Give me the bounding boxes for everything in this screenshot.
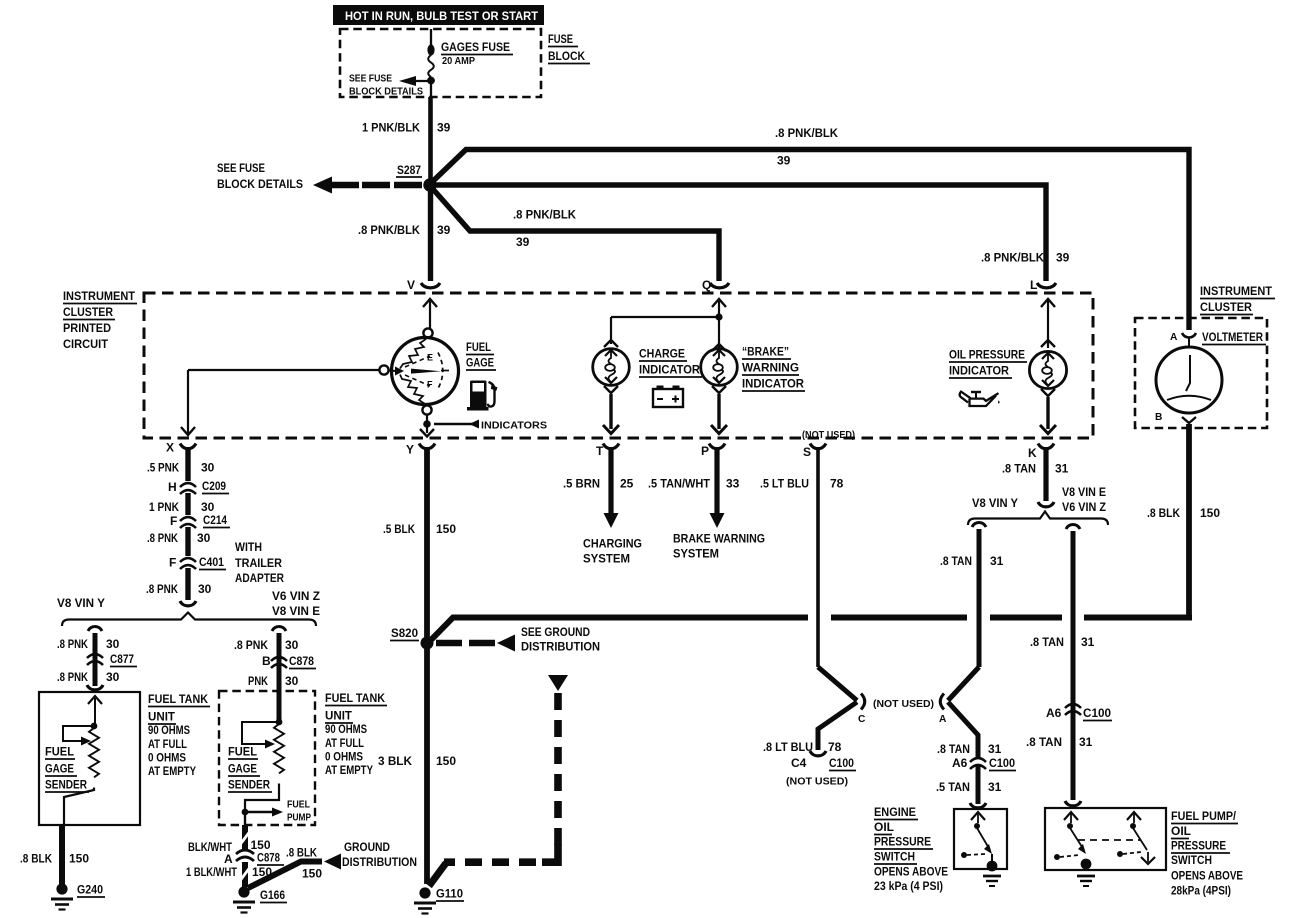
svg-text:30: 30 — [201, 500, 215, 514]
instrument cluster printed circuit dashed box — [144, 293, 1093, 438]
svg-text:GAGE: GAGE — [228, 762, 257, 776]
svg-text:H: H — [168, 480, 177, 494]
wire .5 TAN 31 into engine oil pressure switch — [936, 766, 1002, 808]
svg-text:A: A — [939, 714, 947, 725]
svg-text:F: F — [170, 514, 177, 528]
label WITH TRAILER ADAPTER — [235, 540, 284, 585]
svg-text:20 AMP: 20 AMP — [442, 56, 475, 67]
svg-text:V8 VIN Y: V8 VIN Y — [57, 596, 105, 610]
svg-text:S820: S820 — [391, 626, 418, 640]
svg-text:GROUND: GROUND — [344, 840, 390, 854]
svg-text:ADAPTER: ADAPTER — [235, 571, 284, 585]
svg-text:39: 39 — [437, 121, 451, 135]
connector P (cluster bottom) — [701, 444, 725, 459]
svg-text:BLOCK DETAILS: BLOCK DETAILS — [349, 87, 423, 98]
svg-text:.8 TAN: .8 TAN — [1030, 635, 1064, 649]
svg-text:FUSE: FUSE — [548, 32, 573, 46]
svg-text:.5 BLK: .5 BLK — [383, 522, 415, 536]
wire dashed arrow SEE GROUND DISTRIBUTION — [436, 625, 600, 654]
wire P .5 TAN/WHT 33 to brake warning system — [648, 447, 765, 561]
svg-text:30: 30 — [285, 638, 299, 652]
svg-text:INSTRUMENT: INSTRUMENT — [63, 289, 136, 303]
svg-text:.8 BLK: .8 BLK — [1147, 506, 1180, 520]
wire .8 PNK/BLK 39 S287 to Q (lower run) — [432, 188, 719, 281]
connector C209 pin H — [168, 479, 229, 494]
svg-text:78: 78 — [828, 740, 842, 754]
svg-text:3 BLK: 3 BLK — [378, 754, 412, 768]
svg-text:FUEL: FUEL — [466, 340, 491, 354]
label FUEL GAGE SENDER (left) — [45, 745, 89, 793]
svg-text:C: C — [858, 714, 866, 725]
svg-text:SENDER: SENDER — [228, 778, 270, 792]
svg-text:1 PNK/BLK: 1 PNK/BLK — [362, 121, 420, 135]
wire arrow FUEL PUMP — [245, 800, 311, 824]
svg-text:C100: C100 — [829, 756, 854, 770]
svg-text:E: E — [427, 353, 433, 363]
svg-text:78: 78 — [830, 477, 844, 491]
svg-text:G110: G110 — [436, 887, 463, 901]
svg-text:A: A — [224, 852, 233, 866]
svg-text:SWITCH: SWITCH — [1171, 853, 1212, 867]
svg-text:.8 PNK: .8 PNK — [146, 582, 178, 596]
wire 1 PNK/BLK 39 fuse to S287 — [362, 84, 451, 184]
connector C100 A6 (left branch) — [952, 756, 1016, 771]
svg-text:31: 31 — [988, 742, 1002, 756]
svg-text:33: 33 — [726, 477, 740, 491]
connector X (cluster bottom) — [166, 441, 196, 455]
svg-text:AT EMPTY: AT EMPTY — [325, 763, 373, 777]
svg-text:OPENS ABOVE: OPENS ABOVE — [874, 865, 948, 879]
svg-text:30: 30 — [201, 461, 215, 475]
svg-text:PRESSURE: PRESSURE — [874, 835, 931, 849]
wire .8 BLK 150 to ground distribution — [248, 846, 341, 889]
svg-text:CIRCUIT: CIRCUIT — [63, 337, 109, 351]
wire .8 BLK 150 to G240 — [20, 825, 89, 884]
label FUSE BLOCK — [548, 32, 590, 64]
wire arrow INDICATORS — [434, 420, 547, 432]
connector C100 A6 (right branch) — [1026, 704, 1112, 749]
svg-text:HOT IN RUN, BULB TEST OR START: HOT IN RUN, BULB TEST OR START — [345, 9, 539, 23]
svg-text:25: 25 — [620, 477, 634, 491]
switch SW2 fuel pump (left element) — [1054, 812, 1086, 860]
svg-text:.8 TAN: .8 TAN — [1026, 735, 1062, 749]
label INSTRUMENT CLUSTER PRINTED CIRCUIT — [63, 289, 137, 351]
svg-text:OPENS ABOVE: OPENS ABOVE — [1171, 869, 1243, 883]
svg-text:OIL: OIL — [1171, 824, 1191, 838]
svg-text:ENGINE: ENGINE — [874, 805, 916, 819]
svg-text:.8 PNK: .8 PNK — [57, 637, 88, 651]
svg-text:1 BLK/WHT: 1 BLK/WHT — [186, 865, 238, 879]
svg-text:.5 TAN: .5 TAN — [936, 780, 970, 794]
svg-text:GAGE: GAGE — [45, 762, 74, 776]
wire 1 BLK/WHT 150 to G166 — [186, 862, 272, 887]
connector L (cluster top) — [1030, 278, 1056, 348]
svg-text:.8 PNK/BLK: .8 PNK/BLK — [775, 126, 838, 140]
splice S820 — [390, 626, 434, 650]
svg-text:C878: C878 — [257, 851, 280, 865]
fuel pump / oil pressure switch box — [1045, 808, 1166, 870]
svg-text:SEE FUSE: SEE FUSE — [217, 161, 265, 175]
connector Y (cluster bottom) — [406, 443, 435, 457]
svg-text:C877: C877 — [110, 652, 134, 666]
wire .8 TAN 31 from A to engine oil pressure switch — [937, 702, 1002, 758]
wire .8 PNK/BLK 39 S287 to voltmeter feed (top run) — [431, 126, 1189, 330]
svg-text:V8 VIN Y: V8 VIN Y — [972, 496, 1018, 510]
wire .8 TAN 31 V8 VIN Y branch down to C100 A — [940, 523, 1004, 701]
svg-text:31: 31 — [990, 554, 1004, 568]
svg-text:FUEL: FUEL — [287, 800, 310, 811]
banner HOT IN RUN, BULB TEST OR START — [333, 5, 544, 25]
svg-text:150: 150 — [1200, 506, 1220, 520]
label FUEL GAGE SENDER (right) — [228, 745, 272, 793]
svg-text:UNIT: UNIT — [148, 710, 176, 724]
wire .8 PNK 30 left tank branch — [57, 627, 120, 687]
connector S (cluster bottom) — [803, 444, 826, 460]
svg-text:.8 PNK: .8 PNK — [234, 638, 268, 652]
label INSTRUMENT CLUSTER (voltmeter) — [1200, 284, 1275, 315]
svg-text:OIL PRESSURE: OIL PRESSURE — [949, 348, 1025, 362]
svg-text:S287: S287 — [397, 163, 421, 177]
fuse block dashed box — [340, 29, 541, 97]
svg-text:WARNING: WARNING — [742, 361, 799, 375]
bracket engine variants (right) — [968, 512, 1108, 526]
bracket fuel tank variants — [62, 613, 316, 627]
ground G110 — [414, 887, 464, 914]
svg-text:AT EMPTY: AT EMPTY — [148, 764, 196, 778]
svg-text:VOLTMETER: VOLTMETER — [1202, 330, 1263, 344]
svg-text:CLUSTER: CLUSTER — [1200, 300, 1252, 314]
fuel tank unit box (left, solid) — [39, 692, 140, 825]
wire dashed arrow to see fuse block details (left of S287) — [217, 161, 424, 194]
svg-text:90 OHMS: 90 OHMS — [148, 723, 190, 737]
svg-text:.5 TAN/WHT: .5 TAN/WHT — [648, 477, 711, 491]
label FUEL TANK UNIT 90 OHMS (left) — [148, 692, 210, 778]
wire S820 ground bus (horizontal run) — [428, 618, 1192, 644]
svg-text:CHARGE: CHARGE — [639, 347, 685, 361]
svg-text:30: 30 — [198, 582, 212, 596]
svg-text:.5 BRN: .5 BRN — [563, 477, 600, 491]
svg-text:C4: C4 — [791, 756, 807, 770]
svg-text:INSTRUMENT: INSTRUMENT — [1200, 284, 1273, 298]
svg-text:BLOCK DETAILS: BLOCK DETAILS — [217, 177, 303, 191]
svg-text:WITH: WITH — [235, 540, 262, 554]
label GROUND DISTRIBUTION — [342, 840, 417, 869]
svg-text:SEE GROUND: SEE GROUND — [521, 625, 590, 639]
wire BLK/WHT 150 below right tank — [188, 825, 271, 854]
svg-text:.8 TAN: .8 TAN — [940, 554, 972, 568]
svg-text:.5 LT BLU: .5 LT BLU — [760, 477, 809, 491]
svg-text:B: B — [262, 654, 271, 668]
svg-text:150: 150 — [436, 754, 456, 768]
connector K (cluster bottom) — [1028, 444, 1054, 461]
svg-text:A6: A6 — [1046, 706, 1062, 720]
svg-text:V6 VIN Z: V6 VIN Z — [1062, 500, 1106, 514]
svg-text:30: 30 — [106, 637, 120, 651]
svg-text:150: 150 — [302, 867, 322, 881]
wire fuel gage to Y and indicators node — [420, 415, 434, 437]
svg-text:GAGE: GAGE — [466, 356, 494, 370]
svg-text:(NOT USED): (NOT USED) — [802, 430, 855, 441]
svg-text:FUEL: FUEL — [228, 745, 257, 759]
svg-text:CHARGING: CHARGING — [583, 537, 642, 551]
svg-text:BRAKE WARNING: BRAKE WARNING — [673, 532, 765, 546]
label V6 VIN Z / V8 VIN E — [272, 589, 320, 618]
svg-text:0 OHMS: 0 OHMS — [148, 751, 186, 765]
icon oil can — [960, 392, 1000, 406]
wire .8 PNK/BLK 39 S287 to V — [358, 190, 451, 281]
svg-text:28kPa (4PSI): 28kPa (4PSI) — [1171, 884, 1231, 898]
svg-text:GAGES FUSE: GAGES FUSE — [441, 40, 510, 54]
connector C878 pin B — [248, 654, 316, 688]
connector C401 pin F — [169, 555, 226, 570]
wire entry into fuel pump switch — [1065, 801, 1081, 806]
wire .8 PNK 30 (above C401) — [147, 527, 211, 556]
svg-text:CLUSTER: CLUSTER — [63, 305, 113, 319]
wire S .5 LT BLU 78 down to crossover — [760, 447, 857, 701]
svg-text:V6 VIN Z: V6 VIN Z — [272, 589, 320, 603]
wire .8 TAN 31 V8 VIN E/Z branch down to fuel pump switch — [1030, 525, 1095, 801]
wire fuel gage to X (inside cluster) — [181, 370, 379, 435]
svg-text:.8 LT BLU: .8 LT BLU — [763, 740, 813, 754]
svg-text:.8 PNK/BLK: .8 PNK/BLK — [358, 223, 420, 237]
svg-text:.8 TAN: .8 TAN — [937, 742, 970, 756]
dashed mechanical link between switches — [1078, 839, 1141, 841]
svg-text:V8 VIN E: V8 VIN E — [1062, 485, 1106, 499]
ground G166 — [233, 886, 287, 912]
ground (engine oil pressure switch) — [983, 854, 1001, 886]
engine oil pressure switch box — [954, 809, 1007, 869]
label "BRAKE" WARNING INDICATOR — [742, 345, 805, 392]
svg-text:(NOT USED): (NOT USED) — [786, 777, 848, 788]
svg-text:INDICATOR: INDICATOR — [949, 364, 1009, 378]
svg-text:V8 VIN E: V8 VIN E — [272, 604, 320, 618]
svg-text:S: S — [803, 445, 811, 459]
svg-text:PUMP: PUMP — [287, 813, 311, 824]
label V8 VIN E / V6 VIN Z — [1062, 485, 1106, 514]
wire 1 PNK 30 — [149, 493, 215, 515]
wire charge lamp to T — [603, 394, 619, 434]
svg-text:C100: C100 — [989, 756, 1015, 770]
wire Q to charge indicator branch — [611, 313, 723, 344]
svg-text:INDICATOR: INDICATOR — [639, 363, 700, 377]
svg-text:39: 39 — [1056, 251, 1070, 265]
svg-text:SEE FUSE: SEE FUSE — [349, 74, 392, 85]
icon battery — [653, 386, 683, 408]
svg-text:.8 PNK: .8 PNK — [57, 670, 88, 684]
wire .8 BLK 150 voltmeter B down to ground run — [1147, 424, 1220, 617]
icon gas pump — [467, 381, 498, 411]
svg-text:150: 150 — [436, 522, 456, 536]
fuel gage sender R1 (left) — [63, 696, 102, 825]
svg-text:X: X — [166, 441, 174, 455]
splice S287 — [396, 163, 437, 192]
svg-text:FUEL PUMP/: FUEL PUMP/ — [1171, 809, 1237, 823]
wire arrow see fuse block details (upper) — [349, 74, 431, 98]
label ENGINE OIL PRESSURE SWITCH — [874, 805, 948, 893]
voltmeter dashed box — [1135, 318, 1267, 428]
svg-text:150: 150 — [69, 852, 89, 866]
svg-text:UNIT: UNIT — [325, 709, 353, 723]
svg-text:L: L — [1030, 278, 1037, 292]
svg-text:39: 39 — [777, 154, 791, 168]
svg-text:.8 PNK: .8 PNK — [147, 531, 178, 545]
svg-text:V: V — [407, 278, 415, 292]
svg-text:P: P — [701, 444, 709, 458]
svg-text:C100: C100 — [1083, 706, 1111, 720]
wire X .5 PNK 30 — [147, 447, 215, 481]
svg-text:G166: G166 — [260, 888, 285, 902]
svg-text:FUEL TANK: FUEL TANK — [148, 692, 208, 706]
wire T .5 BRN 25 to charging system — [563, 447, 642, 566]
ground G240 — [51, 883, 105, 910]
svg-text:SYSTEM: SYSTEM — [673, 547, 719, 561]
svg-text:PRESSURE: PRESSURE — [1171, 839, 1226, 853]
svg-text:0 OHMS: 0 OHMS — [325, 750, 363, 764]
connector C877 — [57, 652, 137, 684]
svg-text:.5 PNK: .5 PNK — [147, 461, 179, 475]
wire .8 LT BLU 78 to C4 C100 (not used) — [763, 702, 857, 788]
svg-text:A6: A6 — [952, 756, 968, 770]
connector C878 pin A (lower) — [224, 850, 284, 866]
svg-text:90 OHMS: 90 OHMS — [325, 722, 367, 736]
svg-text:Y: Y — [406, 443, 414, 457]
svg-text:.8 BLK: .8 BLK — [20, 852, 52, 866]
switch SW3 oil pressure (right element) — [1117, 812, 1155, 864]
svg-text:A: A — [1170, 332, 1178, 343]
label CHARGE INDICATOR — [639, 347, 702, 378]
svg-text:(NOT USED): (NOT USED) — [873, 699, 934, 710]
connector C214 pin F — [170, 513, 230, 528]
svg-text:30: 30 — [106, 670, 120, 684]
svg-text:.8 PNK/BLK: .8 PNK/BLK — [981, 251, 1044, 265]
svg-text:39: 39 — [437, 223, 451, 237]
svg-text:SENDER: SENDER — [45, 778, 87, 792]
svg-text:F: F — [427, 380, 433, 390]
wire K .8 TAN 31 — [1002, 447, 1069, 507]
svg-text:C401: C401 — [199, 555, 224, 569]
connector face C (crossover, not used) — [858, 694, 866, 726]
svg-text:INDICATORS: INDICATORS — [481, 421, 547, 432]
connector face A (crossover) — [939, 694, 947, 726]
ground (fuel pump switch) — [1077, 859, 1095, 886]
label GAGES FUSE 20 AMP — [441, 40, 513, 67]
wire Y .5 BLK 150 / 3 BLK 150 main ground drop — [378, 447, 456, 884]
svg-text:SYSTEM: SYSTEM — [583, 552, 630, 566]
fuse F (gages fuse element) — [427, 29, 435, 84]
wire entry left tank unit — [87, 685, 103, 690]
svg-text:.8 TAN: .8 TAN — [1002, 462, 1036, 476]
wire brake lamp to P — [711, 394, 727, 434]
svg-text:DISTRIBUTION: DISTRIBUTION — [521, 640, 600, 654]
svg-text:.8 PNK/BLK: .8 PNK/BLK — [513, 208, 576, 222]
svg-text:C214: C214 — [203, 513, 227, 527]
svg-text:BLOCK: BLOCK — [548, 49, 585, 63]
wire oil lamp to K — [1040, 397, 1056, 434]
connector Q (cluster top) — [702, 278, 729, 348]
svg-text:31: 31 — [988, 780, 1002, 794]
fuel gage U1 — [379, 328, 458, 414]
svg-text:F: F — [169, 556, 176, 570]
wire dashed ground distribution drop to G110 — [429, 675, 568, 886]
svg-text:G240: G240 — [77, 883, 103, 897]
svg-text:C209: C209 — [202, 479, 226, 493]
svg-text:30: 30 — [197, 531, 211, 545]
switch SW1 engine oil pressure — [961, 812, 992, 858]
wire .8 PNK 30 (below C401) — [146, 568, 212, 606]
svg-text:30: 30 — [285, 674, 299, 688]
svg-text:PNK: PNK — [248, 674, 268, 688]
svg-text:31: 31 — [1055, 462, 1069, 476]
svg-text:AT FULL: AT FULL — [325, 736, 364, 750]
svg-text:OIL: OIL — [874, 820, 894, 834]
lamp charge indicator — [593, 340, 630, 393]
svg-text:PRINTED: PRINTED — [63, 321, 111, 335]
connector V (cluster top) — [407, 278, 440, 329]
fuel tank unit box (right, dashed) — [219, 691, 315, 825]
svg-text:TRAILER: TRAILER — [235, 556, 282, 570]
connector T (cluster bottom) — [596, 444, 619, 459]
lamp oil pressure indicator — [1029, 340, 1066, 396]
label OIL PRESSURE INDICATOR — [949, 348, 1027, 379]
wire .8 PNK 30 right tank branch — [234, 627, 299, 723]
svg-text:DISTRIBUTION: DISTRIBUTION — [342, 855, 417, 869]
svg-text:39: 39 — [516, 235, 530, 249]
svg-text:INDICATOR: INDICATOR — [742, 377, 804, 391]
svg-text:FUEL TANK: FUEL TANK — [325, 691, 385, 705]
lamp brake warning indicator — [701, 344, 738, 393]
svg-text:B: B — [1155, 412, 1162, 423]
wire .8 PNK/BLK 39 S287 to L (middle run) — [436, 185, 1070, 281]
fuel gage sender R2 (right) — [242, 719, 284, 825]
svg-text:“BRAKE”: “BRAKE” — [742, 345, 789, 359]
voltmeter M1 — [1155, 332, 1222, 423]
svg-text:31: 31 — [1081, 635, 1095, 649]
svg-text:23 kPa (4 PSI): 23 kPa (4 PSI) — [874, 879, 943, 893]
label VOLTMETER — [1202, 330, 1266, 345]
label FUEL PUMP/ OIL PRESSURE SWITCH — [1171, 809, 1243, 898]
svg-text:FUEL: FUEL — [45, 745, 74, 759]
label FUEL GAGE — [466, 340, 496, 370]
svg-text:SWITCH: SWITCH — [874, 850, 915, 864]
svg-text:K: K — [1028, 446, 1037, 460]
svg-text:31: 31 — [1079, 735, 1093, 749]
svg-text:.8 BLK: .8 BLK — [286, 846, 317, 860]
svg-text:C878: C878 — [289, 654, 314, 668]
svg-text:AT FULL: AT FULL — [148, 737, 187, 751]
label FUEL TANK UNIT 90 OHMS (right) — [325, 691, 387, 777]
svg-text:1 PNK: 1 PNK — [149, 500, 179, 514]
